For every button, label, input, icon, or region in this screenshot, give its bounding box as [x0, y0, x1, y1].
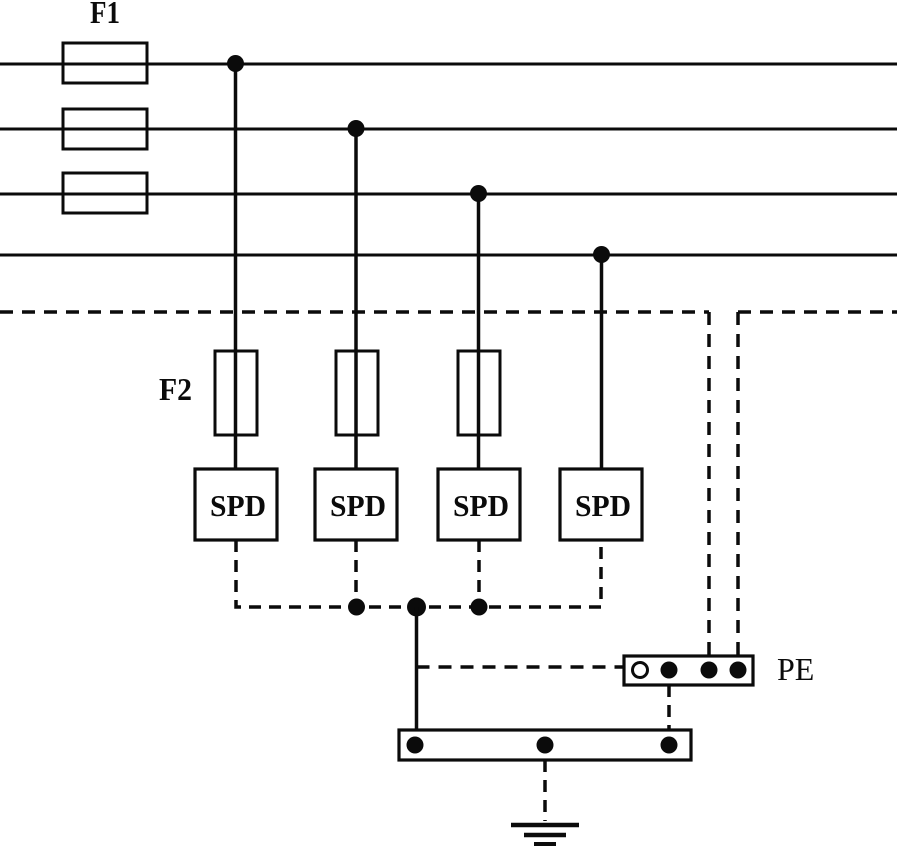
svg-text:PE: PE	[777, 651, 814, 687]
svg-text:SPD: SPD	[330, 488, 386, 523]
svg-text:SPD: SPD	[210, 488, 266, 523]
svg-text:SPD: SPD	[575, 488, 631, 523]
svg-text:F1: F1	[90, 0, 120, 30]
svg-text:F2: F2	[159, 371, 192, 407]
svg-text:SPD: SPD	[453, 488, 509, 523]
